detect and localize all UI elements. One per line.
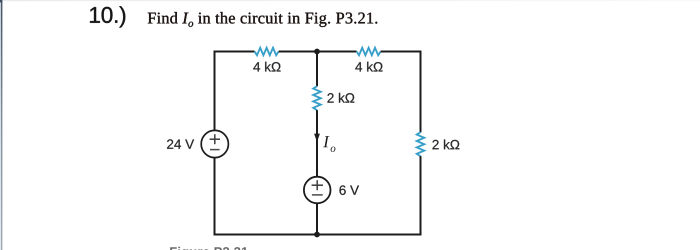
value label "2 kOhm" (middle) bbox=[327, 93, 354, 103]
current arrow Io (pointing down) bbox=[314, 134, 320, 142]
page corner mark bbox=[0, 0, 2, 2]
wire: right branch upper bbox=[420, 51, 422, 133]
wire: left branch lower bbox=[214, 158, 216, 236]
figure caption "Figure P3.21" (clipped at page bottom) bbox=[170, 247, 248, 250]
value label "24 V" bbox=[167, 139, 194, 148]
wire: top side, middle segment bbox=[279, 51, 357, 53]
node: top junction bbox=[314, 49, 320, 55]
wire: middle branch upper bbox=[316, 52, 318, 87]
resistor 4 kOhm (top right) bbox=[357, 48, 381, 56]
page left edge rule bbox=[1, 0, 3, 250]
value label "4 kOhm" (top left) bbox=[253, 62, 280, 72]
wire: top side, left segment bbox=[215, 51, 255, 53]
current label "Io" bbox=[323, 136, 335, 152]
resistor 2 kOhm (right) bbox=[417, 132, 425, 156]
wire: middle branch lower bbox=[316, 203, 318, 234]
value label "6 V" bbox=[339, 185, 359, 195]
voltage source 6 V bbox=[304, 177, 331, 204]
resistor 4 kOhm (top left) bbox=[255, 48, 279, 56]
value label "2 kOhm" (right) bbox=[432, 140, 459, 150]
wire: left branch upper bbox=[214, 51, 216, 131]
value label "4 kOhm" (top right) bbox=[355, 62, 382, 72]
resistor 2 kOhm (middle) bbox=[313, 86, 321, 110]
wire: right branch lower bbox=[420, 156, 422, 235]
voltage source 24 V bbox=[201, 130, 228, 157]
wire: bottom side bbox=[214, 234, 422, 236]
page top edge rule bbox=[0, 0, 700, 1]
problem statement "Find Io in the circuit in Fig. P3.21." bbox=[148, 12, 378, 27]
node: bottom junction bbox=[314, 232, 320, 238]
wire: top side, right segment bbox=[381, 51, 421, 53]
problem number "10.)" bbox=[90, 6, 125, 27]
wire: middle branch, resistor to source bbox=[316, 110, 318, 177]
